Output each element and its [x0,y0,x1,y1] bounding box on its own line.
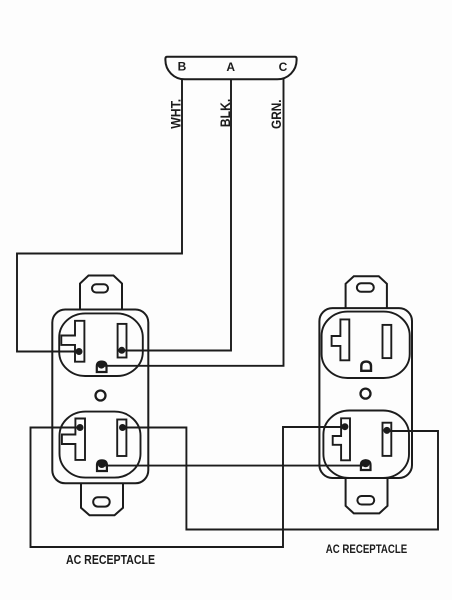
receptacle XR1 bottom mounting tab [81,482,123,515]
svg-text:B: B [178,60,187,74]
wire WHT: pin B to receptacle XR1 top neutral terminal [17,79,182,352]
receptacle XR2 top tab screw slot [357,283,374,292]
receptacle XR1 bottom outlet face [60,412,141,478]
receptacle XR1 bottom outlet ground hole [97,460,107,471]
receptacle XR1 top outlet face [59,313,143,376]
terminal dot: XR1 top ground [97,361,105,369]
terminal dot: XR1 bottom ground [98,460,106,468]
receptacle XR2 bottom outlet neutral T-slot [333,418,350,460]
receptacle XR1 top outlet neutral T-slot [61,321,84,362]
receptacle XR2 bottom outlet hot slot [383,423,392,456]
receptacle XR1 top outlet ground hole [97,362,107,372]
receptacle XR1 top outlet hot slot [118,324,127,358]
receptacle XR2 bottom tab screw slot [357,496,374,505]
receptacle XR2 center mounting screw hole [361,389,371,399]
terminal dot: XR1 top hot [118,347,125,354]
terminal dot: XR1 top neutral [76,348,83,355]
svg-text:C: C [279,60,288,74]
receptacle XR2 bottom outlet ground hole [361,460,371,470]
connector P1 body [165,57,296,80]
wire hot link: XR1 bottom hot to XR2 bottom hot [123,428,439,530]
receptacle XR1 center mounting screw hole [96,391,106,401]
receptacle XR2 body [319,308,412,478]
terminal dot: XR1 bottom hot [119,424,126,431]
receptacle XR1 top tab screw slot [92,284,108,292]
terminal dot: XR2 bottom hot [383,427,390,434]
receptacle XR2 top outlet hot slot [383,325,392,358]
receptacle XR2 top outlet neutral T-slot [332,319,350,360]
receptacle XR2 top outlet face [322,312,410,378]
receptacle XR1 bottom outlet neutral T-slot [62,419,85,460]
wire neutral link: XR1 bottom neutral to XR2 bottom neutral [31,427,345,547]
receptacle XR2 top outlet ground hole [361,362,371,371]
wire BLK: pin A to receptacle XR1 top hot terminal [122,79,231,350]
terminal dot: XR2 bottom ground [362,459,370,467]
svg-text:AC RECEPTACLE: AC RECEPTACLE [326,542,408,556]
receptacle XR2 bottom mounting tab [346,477,388,513]
terminal dot: XR1 bottom neutral [77,424,84,431]
receptacle XR2 bottom outlet face [323,411,409,479]
receptacle XR2 top mounting tab [346,276,387,310]
svg-text:A: A [226,60,235,74]
wire ground link: XR1 bottom ground to XR2 bottom ground [102,465,366,467]
receptacle XR1 bottom tab screw slot [93,497,110,506]
receptacle XR1 bottom outlet hot slot [117,420,126,457]
wire GRN: pin C to receptacle XR1 top ground terminal [101,79,284,366]
terminal dot: XR2 bottom neutral [341,423,348,430]
receptacle XR1 body [52,310,148,484]
receptacle XR1 top mounting tab [80,276,122,312]
svg-text:AC RECEPTACLE: AC RECEPTACLE [66,553,155,567]
svg-text:GRN.: GRN. [269,99,284,129]
